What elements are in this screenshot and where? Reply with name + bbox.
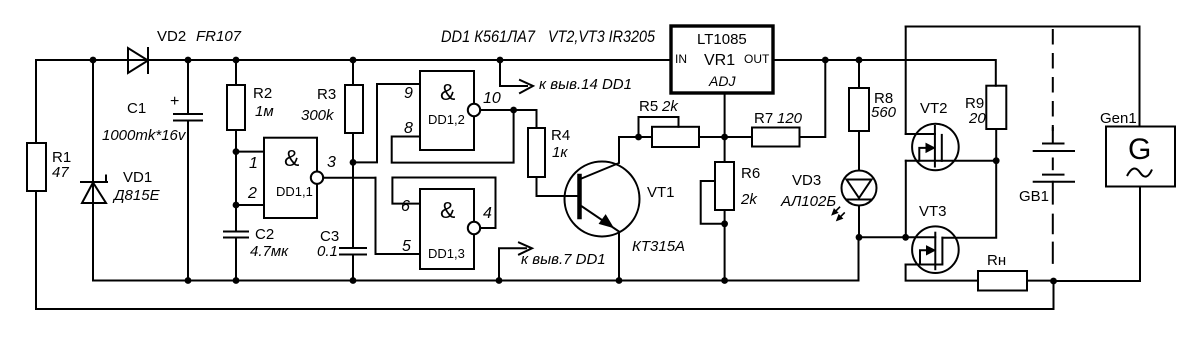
transistor VT3 gate: [906, 236, 936, 238]
resistor R2: [227, 85, 245, 130]
svg-text:300k: 300k: [301, 107, 335, 124]
svg-text:20: 20: [968, 110, 986, 127]
node top rail R3: [350, 57, 357, 64]
wire C1 bottom: [187, 121, 189, 281]
wire R4 top lead: [536, 110, 538, 128]
gate DD1.1 output circle: [311, 172, 323, 184]
node VT1 collector R5: [635, 134, 642, 141]
capacitor C1 plus lead: [187, 60, 189, 114]
svg-text:4.7мк: 4.7мк: [250, 243, 289, 260]
svg-text:1000mk*16v: 1000mk*16v: [102, 127, 187, 144]
svg-text:LT1085: LT1085: [697, 31, 747, 48]
node VD3 bottom: [856, 234, 863, 241]
svg-text:VT2,VT3 IR3205: VT2,VT3 IR3205: [548, 27, 655, 46]
svg-text:VD1: VD1: [123, 169, 152, 186]
LED VD3 emission arrows: [834, 207, 845, 219]
wire R1 bottom to ground rail: [35, 191, 37, 309]
svg-text:R2: R2: [253, 85, 272, 102]
diode VD2: [128, 48, 148, 73]
svg-text:к выв.7 DD1: к выв.7 DD1: [521, 251, 606, 268]
resistor R4: [528, 128, 545, 177]
wire VD3 bottom: [858, 206, 860, 238]
wire R2 top lead: [235, 60, 237, 85]
resistor R8: [849, 88, 869, 131]
svg-text:6: 6: [401, 198, 410, 215]
node mid rail C3: [350, 277, 357, 284]
node R2 pin2: [233, 202, 240, 209]
node pin10 branch: [510, 107, 517, 114]
transistor VT2 channel: [941, 135, 943, 161]
node top rail VD1: [90, 57, 97, 64]
wire VT2 drain to R9 node: [942, 160, 996, 162]
svg-text:DD1,1: DD1,1: [276, 184, 313, 199]
capacitor C2: [224, 232, 248, 238]
svg-text:R7: R7: [754, 110, 773, 127]
wire gate-drive rail top: [906, 27, 1140, 127]
arrow to pin14 DD1: [500, 60, 527, 86]
svg-text:R6: R6: [741, 165, 760, 182]
wire R6 bottom lead: [724, 210, 726, 281]
svg-text:9: 9: [404, 85, 413, 102]
svg-text:GB1: GB1: [1019, 188, 1049, 205]
svg-text:G: G: [1128, 133, 1151, 166]
wire collector node rail: [619, 136, 652, 138]
svg-text:VT3: VT3: [919, 203, 947, 220]
resistor R6: [715, 162, 734, 210]
gate DD1.2 box: [420, 71, 474, 150]
LED VD3 circle: [842, 171, 877, 206]
svg-text:2k: 2k: [740, 191, 758, 208]
svg-text:C1: C1: [127, 100, 146, 117]
svg-text:DD1,3: DD1,3: [428, 246, 465, 261]
wire R6 tap loop: [701, 181, 724, 224]
svg-text:560: 560: [871, 104, 897, 121]
wire pin4 feedback to pin6: [392, 178, 495, 229]
svg-text:R3: R3: [317, 86, 336, 103]
transistor VT1 base bar: [577, 176, 582, 217]
svg-text:2: 2: [247, 185, 257, 202]
transistor VT3 circle: [912, 226, 959, 273]
tilde sign: [1127, 168, 1152, 176]
svg-text:R5: R5: [639, 98, 658, 115]
battery GB1 mid dash: [1052, 159, 1054, 170]
generator Gen1 box: [1106, 127, 1175, 187]
wire R8 to VD3: [858, 131, 860, 171]
capacitor C1 plates: [174, 114, 202, 121]
wire Rn to output node: [1027, 280, 1054, 282]
wire pin10 output: [480, 109, 536, 111]
svg-text:&: &: [284, 145, 299, 171]
gate DD1.3 box: [420, 189, 474, 269]
svg-text:0.1: 0.1: [317, 243, 338, 260]
node mid rail R6: [721, 277, 728, 284]
wire top rail: [36, 59, 671, 61]
wire Gen1 bottom lead: [1054, 187, 1141, 282]
svg-text:4: 4: [483, 205, 492, 222]
wire R8 top lead: [858, 60, 860, 88]
wire VT3 source to Rn: [906, 265, 978, 281]
node out rail R7: [822, 57, 829, 64]
regulator VR1 ADJ lead: [724, 93, 726, 137]
svg-text:АЛ102Б: АЛ102Б: [780, 193, 836, 210]
wire C3 bottom: [352, 255, 354, 281]
resistor R9: [986, 86, 1006, 129]
node VT3 gate: [902, 234, 909, 241]
wire bottom-most rail: [36, 281, 1054, 309]
transistor VT1 emitter arrowhead: [600, 216, 613, 228]
svg-text:ADJ: ADJ: [708, 73, 736, 89]
gate DD1.2 output circle: [468, 104, 480, 116]
svg-text:3: 3: [327, 154, 336, 171]
wire pin10 feedback to pin8: [392, 110, 514, 163]
wire mid-bottom rail: [93, 238, 859, 281]
resistor R3: [345, 85, 363, 133]
svg-text:DD1 К561ЛА7: DD1 К561ЛА7: [441, 27, 535, 46]
svg-text:120: 120: [777, 110, 803, 127]
battery GB1 cell2: [1034, 175, 1074, 182]
svg-text:1: 1: [249, 155, 258, 172]
svg-text:IN: IN: [675, 52, 687, 66]
regulator VR1 box: [671, 26, 773, 93]
battery GB1 bottom solid: [1052, 182, 1054, 204]
node top rail C1: [185, 57, 192, 64]
transistor VT3 substrate arrow: [920, 250, 929, 264]
wire C2 bottom: [235, 238, 237, 281]
wire VD3 node to VT3 gate: [859, 236, 906, 238]
transistor VT1 circle: [565, 162, 640, 237]
wire R7 to out rail: [800, 60, 826, 137]
wire R3 top lead: [352, 60, 354, 85]
wire pin3 to pin5: [376, 178, 421, 254]
svg-text:FR107: FR107: [196, 28, 242, 45]
svg-text:Gen1: Gen1: [1100, 110, 1137, 127]
node top rail R2: [233, 57, 240, 64]
LED VD3 triangle and bar: [847, 180, 872, 200]
wire VT2 source down to VT3 gate node: [905, 161, 907, 238]
svg-text:+: +: [170, 93, 179, 110]
wire VD1 branch vertical: [92, 60, 94, 281]
resistor Rn: [978, 271, 1027, 291]
transistor VT3 channel: [941, 238, 943, 263]
svg-text:OUT: OUT: [744, 52, 770, 66]
node VT2 drain R9: [993, 157, 1000, 164]
svg-text:VD2: VD2: [157, 28, 186, 45]
battery GB1 top solid: [1052, 128, 1054, 144]
resistor R5: [652, 127, 699, 147]
svg-text:VT1: VT1: [647, 184, 675, 201]
wire R4 to VT1 base: [537, 177, 578, 196]
battery GB1 cell1: [1034, 144, 1074, 152]
wire out rail: [773, 60, 996, 86]
node R2 pin1: [233, 148, 240, 155]
transistor VT2 substrate arrow: [919, 148, 928, 161]
node out rail R8: [856, 57, 863, 64]
transistor VT2 circle: [912, 124, 959, 171]
transistor VT2 gate: [906, 133, 935, 135]
wire R6 top lead: [724, 137, 726, 162]
svg-text:КТ315А: КТ315А: [632, 238, 685, 255]
wire VT2 source-drain bottom: [906, 160, 942, 162]
wire R3 bottom to C3: [352, 133, 354, 248]
wire left vertical: [35, 60, 37, 143]
wire VT3 source bottom: [906, 264, 943, 266]
zener VD1: [81, 176, 107, 204]
svg-text:R4: R4: [551, 127, 570, 144]
svg-text:VT2: VT2: [920, 100, 948, 117]
arrow to pin7 DD1: [499, 248, 526, 280]
wire node R3-C3 to pin9: [353, 84, 420, 162]
transistor VT1 collector: [582, 137, 620, 179]
svg-text:&: &: [440, 79, 455, 105]
node R3 C3 junction: [350, 159, 357, 166]
node ADJ R5 R6 R7: [721, 134, 728, 141]
svg-text:VD3: VD3: [792, 172, 821, 189]
wire pin3 output: [323, 177, 375, 179]
battery GB1 dashed lead bottom: [1052, 215, 1054, 263]
node mid rail VT1 emitter: [616, 277, 623, 284]
wire R5 tap loop: [639, 117, 679, 137]
svg-text:2k: 2k: [661, 98, 679, 115]
node mid rail pin7 arrow: [496, 277, 503, 284]
capacitor C3: [340, 248, 366, 255]
wire pin4 output: [480, 227, 495, 229]
svg-text:к выв.14 DD1: к выв.14 DD1: [539, 76, 632, 93]
svg-text:VR1: VR1: [704, 52, 735, 69]
wire R9 bottom lead: [995, 129, 997, 161]
gate DD1.1 box: [264, 138, 317, 218]
battery GB1 dashed lead top: [1052, 30, 1054, 130]
node top rail pin14 arrow: [497, 57, 504, 64]
node mid rail C2: [233, 277, 240, 284]
svg-text:1м: 1м: [255, 103, 274, 120]
svg-text:DD1,2: DD1,2: [428, 112, 465, 127]
gate DD1.3 output circle: [468, 222, 480, 234]
svg-text:8: 8: [404, 120, 413, 137]
node output Rn GB1 Gen1: [1050, 278, 1057, 285]
svg-text:Д815Е: Д815Е: [112, 187, 161, 204]
svg-text:47: 47: [52, 164, 69, 181]
wire drain link to VT3: [942, 161, 996, 238]
resistor R7: [752, 128, 800, 147]
svg-text:1к: 1к: [552, 144, 568, 161]
svg-text:C2: C2: [255, 226, 274, 243]
resistor R1: [27, 143, 46, 191]
node mid rail C1: [185, 277, 192, 284]
svg-text:10: 10: [483, 90, 501, 107]
transistor VT1 emitter: [582, 207, 619, 281]
wire R2 bottom to C2: [235, 130, 237, 232]
svg-text:&: &: [440, 197, 455, 223]
svg-text:5: 5: [402, 238, 411, 255]
wire DD1.1 pin2: [236, 204, 264, 206]
node R6 tap: [721, 220, 728, 227]
svg-text:Rн: Rн: [987, 252, 1006, 269]
wire DD1.1 pin1: [236, 151, 264, 153]
wire VT2 gate vertical: [905, 27, 907, 135]
wire R5 to R7: [699, 136, 752, 138]
